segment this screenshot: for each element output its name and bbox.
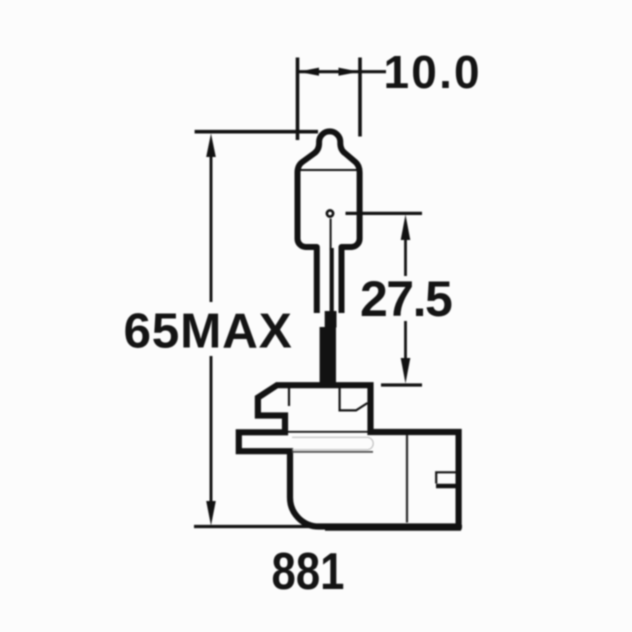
dimension: 10.0 leader — [360, 70, 386, 73]
dimension: 27.5 bottom tick — [381, 383, 422, 386]
base bottom thick edge — [325, 526, 461, 531]
base keyway detail — [340, 388, 368, 410]
dimension: 65MAX dim line upper — [210, 150, 213, 302]
lead bundle upper (pinch) — [325, 311, 337, 328]
filament lead wire (thin, below circle) — [330, 219, 332, 250]
lead bundle lower — [320, 327, 336, 385]
filament reference circle — [327, 210, 333, 216]
baseline extension — [194, 525, 462, 528]
dimension: 10.0 right extension line — [358, 58, 362, 137]
dimension: 27.5 up arrowhead — [401, 215, 411, 241]
lead wire inside stem — [330, 248, 334, 313]
dimension: 27.5 dim line lower — [404, 321, 407, 361]
dimension: 65MAX top extension line — [195, 130, 318, 134]
dimension: 65MAX dim line lower — [210, 356, 213, 505]
dimension: 65MAX up arrowhead — [206, 134, 216, 158]
capsule shoulder line — [297, 169, 360, 171]
slot bottom edge — [292, 451, 373, 453]
dimension: 27.5 dim line upper — [404, 232, 407, 276]
dimension: 65MAX down arrowhead — [206, 501, 216, 526]
flange top thin line — [288, 431, 368, 433]
svg-text:65MAX: 65MAX — [123, 304, 292, 359]
right wall notch — [436, 472, 457, 483]
svg-text:881: 881 — [272, 544, 345, 601]
dimension: 10.0 arrow shaft — [299, 70, 359, 73]
dimension: 27.5 top tick — [346, 212, 423, 215]
dimension: 27.5 down arrowhead — [401, 358, 411, 384]
base outline (PG13 base) — [239, 385, 459, 526]
dimension: 10.0 left arrowhead — [298, 68, 319, 76]
bulb capsule with tip nipple and stem walls — [298, 131, 360, 313]
base inner edge line (left) — [288, 388, 290, 406]
svg-text:27.5: 27.5 — [360, 271, 452, 327]
base divider line — [406, 435, 408, 523]
dimension: 10.0 right arrowhead — [339, 68, 360, 76]
svg-text:10.0: 10.0 — [384, 46, 482, 98]
dimension: 10.0 left extension line — [296, 58, 300, 141]
flange slot (gray) — [292, 437, 373, 449]
